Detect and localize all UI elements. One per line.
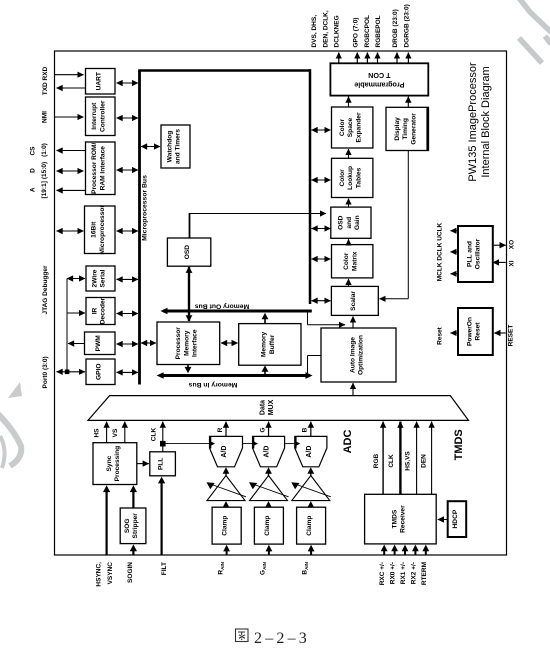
svg-text:PW135 ImageProcessor: PW135 ImageProcessor xyxy=(467,62,479,182)
wire OSD to OSD-and-Gain xyxy=(190,213,327,238)
wire RXD xyxy=(57,87,86,89)
svg-text:MCLK DCLK UCLK: MCLK DCLK UCLK xyxy=(437,222,444,281)
svg-text:TMDS: TMDS xyxy=(453,429,465,460)
svg-text:Processing: Processing xyxy=(114,446,121,482)
wire Clamp R to amplifier xyxy=(223,501,230,507)
pin label (15:0) xyxy=(41,162,48,179)
svg-text:Watchdog: Watchdog xyxy=(166,131,173,163)
wire peripheral to uP bus at y=313.5 xyxy=(117,313,139,315)
wire Processor Memory Interface to Memory Buffer xyxy=(221,342,238,344)
wire HS to Data MUX xyxy=(106,422,108,443)
svg-text:FILT: FILT xyxy=(161,562,168,575)
pin label HSYNC VSYNC xyxy=(96,562,115,587)
label RGB xyxy=(373,453,380,468)
pin label RX1 +/- xyxy=(400,562,407,584)
mux Data MUX xyxy=(88,396,469,421)
block OSD and Gain xyxy=(331,207,371,238)
pin label JTAG Debugger xyxy=(42,265,49,314)
svg-text:GPO (7:0): GPO (7:0) xyxy=(353,18,360,48)
bus Memory In Bus xyxy=(157,372,313,379)
amplifier B xyxy=(291,476,331,501)
wire TMDS RGB to Data MUX xyxy=(382,422,384,495)
wire peripheral to uP bus at y=231 xyxy=(117,230,139,232)
wire Reset output xyxy=(451,332,459,334)
pin label A xyxy=(29,187,36,192)
svg-text:RX0 +/-: RX0 +/- xyxy=(390,562,397,584)
pin label TXD RXD xyxy=(42,66,49,95)
svg-text:CLK: CLK xyxy=(151,428,158,442)
label HS xyxy=(94,428,101,438)
block PLL xyxy=(150,452,176,476)
wire analog input to Clamp at x=311.1 xyxy=(308,545,315,555)
svg-text:CLK: CLK xyxy=(388,454,395,468)
svg-text:PowerOn: PowerOn xyxy=(466,317,473,346)
adc A/D B xyxy=(295,436,327,466)
svg-text:16Bit: 16Bit xyxy=(91,221,98,238)
wire Memory In Bus to Memory Buffer xyxy=(262,365,269,374)
svg-text:Reset: Reset xyxy=(475,322,482,341)
svg-text:RXC +/-: RXC +/- xyxy=(379,562,386,585)
svg-text:HS: HS xyxy=(94,428,101,438)
wire A xyxy=(57,189,86,191)
wire XI xyxy=(493,261,506,263)
wire Processor Memory Interface to Memory In Bus xyxy=(185,365,192,374)
svg-text:(1:0): (1:0) xyxy=(41,143,48,157)
wire Clamp B to amplifier xyxy=(307,501,314,507)
svg-text:VSYNC: VSYNC xyxy=(107,562,114,585)
wire Scalar to Color Matrix xyxy=(348,279,350,287)
wire peripheral to uP bus at y=170 xyxy=(117,169,139,171)
svg-text:Color: Color xyxy=(339,169,346,187)
svg-text:OSD: OSD xyxy=(184,245,191,260)
label XO xyxy=(509,240,516,249)
svg-text:HDCP: HDCP xyxy=(452,509,459,528)
svg-text:Processor: Processor xyxy=(175,327,182,360)
amplifier G xyxy=(249,476,289,501)
svg-text:SOGIN: SOGIN xyxy=(127,562,134,583)
block Color Space Expander xyxy=(332,107,373,148)
junction Port0 rail corner xyxy=(65,370,70,375)
wire peripheral to uP bus at y=83 xyxy=(117,82,139,84)
label MCLK DCLK UCLK xyxy=(437,222,444,281)
svg-text:RAM Interface: RAM Interface xyxy=(99,146,106,191)
label R xyxy=(217,427,224,432)
svg-text:GPIO: GPIO xyxy=(96,364,103,381)
svg-text:Expander: Expander xyxy=(355,112,362,142)
wire SOG Stripper to Sync Processing xyxy=(130,485,137,508)
svg-text:Serial: Serial xyxy=(100,269,107,287)
svg-text:Gain: Gain xyxy=(354,215,361,230)
wire analog input to Clamp at x=226.6 xyxy=(223,545,230,555)
core box top edge xyxy=(138,69,311,72)
wire NMI to Interrupt Controller xyxy=(55,116,84,118)
svg-text:R: R xyxy=(217,427,224,432)
wire D xyxy=(57,170,84,172)
pin label D xyxy=(29,168,36,173)
core box right edge xyxy=(309,69,312,304)
svg-text:Scalar: Scalar xyxy=(350,291,357,311)
wire RESET input xyxy=(494,332,505,334)
label Microprocessor Bus xyxy=(142,175,149,241)
wire Clamp G to amplifier xyxy=(265,501,272,507)
pin label DGRGB (23:0) xyxy=(403,4,410,47)
svg-text:Display: Display xyxy=(394,117,401,141)
label Memory Out Bus xyxy=(195,303,250,310)
wire TMDS input 0 to receiver xyxy=(381,545,388,555)
watermark top right xyxy=(519,0,550,63)
svg-text:Optimization: Optimization xyxy=(358,335,365,375)
label Memory In Bus xyxy=(188,381,237,388)
label CLK xyxy=(388,454,395,468)
label XI xyxy=(509,260,516,266)
wire VS to Data MUX xyxy=(124,422,126,443)
wire peripheral rail xyxy=(66,279,68,372)
svg-text:Clamp: Clamp xyxy=(264,516,271,536)
svg-text:PLL: PLL xyxy=(158,458,165,470)
wire Data MUX to Auto Image Optimization xyxy=(352,383,354,396)
label TMDS section xyxy=(453,429,465,460)
svg-text:RTERM: RTERM xyxy=(421,562,428,585)
block PLL and Oscillator xyxy=(458,226,493,282)
wire Memory Out Bus to Memory Buffer xyxy=(262,313,269,324)
block PWM xyxy=(85,332,116,355)
svg-text:Clamp: Clamp xyxy=(222,516,229,536)
svg-text:PWM: PWM xyxy=(95,335,102,352)
wire amplifier R to A/D xyxy=(223,467,230,475)
block Color Lookup Tables xyxy=(332,158,373,197)
label ADC section xyxy=(342,430,354,454)
wire HSYNC VSYNC input xyxy=(103,485,110,555)
block Interrupt Controller xyxy=(86,97,116,136)
pin label RX0 +/- xyxy=(390,562,397,584)
bus Microprocessor Bus line xyxy=(138,71,141,385)
wire PLL CLK to Data MUX xyxy=(162,422,164,452)
svg-text:Memory In Bus: Memory In Bus xyxy=(188,381,237,388)
pin label DVS, DHS, xyxy=(311,15,318,48)
wire core box to Color Matrix xyxy=(312,258,331,260)
block HDCP xyxy=(448,501,467,537)
svg-text:Lookup: Lookup xyxy=(347,166,354,190)
svg-text:Color: Color xyxy=(339,118,346,136)
svg-text:2Wire: 2Wire xyxy=(91,269,98,287)
wire FILT input to PLL xyxy=(158,477,165,555)
title Internal Block Diagram xyxy=(480,66,492,177)
svg-text:A: A xyxy=(29,187,36,192)
svg-text:DCLKNEG: DCLKNEG xyxy=(334,15,341,47)
svg-text:and: and xyxy=(346,217,353,229)
svg-text:PLL and: PLL and xyxy=(466,241,473,267)
pin label RGBEPOL xyxy=(375,15,382,47)
label VS xyxy=(112,428,119,437)
wire Display Timing Generator to TCON xyxy=(407,97,409,108)
block Watchdog and Timers xyxy=(161,125,190,168)
label HS,VS xyxy=(404,451,411,471)
svg-text:Generator: Generator xyxy=(410,113,417,145)
wire core box to Color Space Expander xyxy=(312,129,331,131)
svg-text:TXD RXD: TXD RXD xyxy=(42,66,49,95)
wire amplifier B to A/D xyxy=(307,467,314,475)
pin label BAIN xyxy=(302,561,310,574)
caption figure glyph xyxy=(236,629,249,642)
svg-text:XO: XO xyxy=(509,240,516,249)
block PowerOn Reset xyxy=(458,308,493,355)
svg-text:Sync: Sync xyxy=(106,455,113,471)
svg-text:[19:1]: [19:1] xyxy=(41,181,48,198)
svg-text:T CON: T CON xyxy=(368,71,390,80)
block 16Bit Microprocessor xyxy=(85,205,116,255)
pin label SOGIN xyxy=(127,562,134,583)
watermark left edge xyxy=(0,382,22,468)
wire A/D B to Data MUX xyxy=(310,422,312,437)
block UART xyxy=(86,69,116,95)
block Processor Memory Interface xyxy=(157,322,220,365)
wire core box to Scalar xyxy=(312,300,331,302)
bus Memory Out Bus xyxy=(161,308,312,314)
svg-text:Timing: Timing xyxy=(402,118,409,140)
svg-text:RESET: RESET xyxy=(508,325,515,347)
svg-text:ADC: ADC xyxy=(342,430,354,454)
wire Port0 to GPIO xyxy=(57,371,86,373)
svg-text:A/D: A/D xyxy=(306,446,313,458)
wire TMDS input 3 to receiver xyxy=(412,545,419,555)
svg-text:Microprocessor Bus: Microprocessor Bus xyxy=(142,175,149,241)
wire Sync Processing to PLL xyxy=(137,463,149,465)
svg-text:Internal Block Diagram: Internal Block Diagram xyxy=(480,66,492,177)
svg-text:XI: XI xyxy=(509,260,516,266)
svg-text:D: D xyxy=(29,168,36,173)
block Programmable TCON xyxy=(330,63,428,95)
wire TMDS DEN to Data MUX xyxy=(431,422,433,495)
pin label FILT xyxy=(161,562,168,575)
svg-text:Space: Space xyxy=(347,117,354,137)
block Clamp G xyxy=(254,507,283,544)
label G xyxy=(259,427,266,432)
pin label RXC +/- xyxy=(379,562,386,585)
pin label DRGB (23:0) xyxy=(392,9,399,47)
wire core box to Color Lookup Tables xyxy=(312,179,331,181)
wire SOGIN input xyxy=(130,544,137,555)
block Clamp R xyxy=(212,507,241,544)
wire TCON output at x=397 xyxy=(396,53,398,64)
adc A/D G xyxy=(253,436,285,466)
caption text 2-2-3 xyxy=(254,630,310,647)
wire rail to PWM xyxy=(68,343,84,345)
svg-text:MUX: MUX xyxy=(268,399,275,415)
svg-text:RX2 +/-: RX2 +/- xyxy=(410,562,417,584)
wire A/D R to Data MUX xyxy=(225,422,227,437)
svg-text:Decoder: Decoder xyxy=(100,297,107,324)
svg-text:HS,VS: HS,VS xyxy=(404,451,411,471)
wire TMDS CLK to Data MUX xyxy=(399,422,401,495)
svg-text:and Timers: and Timers xyxy=(175,129,182,164)
pin label GPO (7:0) xyxy=(353,18,360,48)
svg-text:Buffer: Buffer xyxy=(269,334,276,354)
svg-text:Memory: Memory xyxy=(183,330,190,356)
wire TMDS input 1 to receiver xyxy=(391,545,398,555)
wire TMDS input 4 to receiver xyxy=(422,545,429,555)
wire peripheral to uP bus at y=372.4 xyxy=(117,371,139,373)
wire Color Lookup Tables to Color Space Expander xyxy=(348,149,350,158)
wire peripheral to uP bus at y=118 xyxy=(117,117,139,119)
wire Color Space Expander to TCON xyxy=(348,97,350,107)
svg-text:Interface: Interface xyxy=(192,329,199,357)
wire amplifier G to A/D xyxy=(265,467,272,475)
block Scalar xyxy=(331,286,378,315)
title PW135 ImageProcessor xyxy=(467,62,479,182)
svg-text:IR: IR xyxy=(91,307,98,314)
svg-text:JTAG Debugger: JTAG Debugger xyxy=(42,265,49,314)
svg-text:Auto Image: Auto Image xyxy=(349,337,356,373)
wire CLK distribution to ADCs xyxy=(163,443,295,445)
svg-text:Reset: Reset xyxy=(437,326,444,345)
block Sync Processing xyxy=(93,443,137,485)
svg-text:HSYNC,: HSYNC, xyxy=(96,562,103,587)
pin label RX2 +/- xyxy=(410,562,417,584)
svg-text:DGRGB (23:0): DGRGB (23:0) xyxy=(403,4,410,47)
svg-text:B: B xyxy=(302,427,309,432)
wire OSD to Processor Memory Interface xyxy=(186,267,193,322)
label RESET xyxy=(508,325,515,347)
svg-text:CS: CS xyxy=(29,146,36,156)
svg-text:VS: VS xyxy=(112,428,119,437)
pin label [19:1] xyxy=(41,181,48,198)
pin label RGBCPOL xyxy=(364,15,371,48)
label B xyxy=(302,427,309,432)
wire peripheral to uP bus at y=279.4 xyxy=(117,278,139,280)
block Color Matrix xyxy=(332,245,373,278)
wire clock output at y=230.8 xyxy=(451,230,459,232)
svg-text:Processor ROM/: Processor ROM/ xyxy=(91,142,98,193)
block OSD xyxy=(167,238,210,266)
wire rail to IR Decoder xyxy=(67,312,85,314)
block Clamp B xyxy=(297,507,326,544)
block IR Decoder xyxy=(86,297,115,324)
svg-text:RGBEPOL: RGBEPOL xyxy=(375,15,382,47)
block TMDS Receiver xyxy=(365,494,437,544)
amplifier R xyxy=(207,476,247,501)
block Processor ROM/RAM Interface xyxy=(86,142,116,195)
svg-text:Controller: Controller xyxy=(99,100,106,132)
pin label NMI xyxy=(42,111,49,123)
svg-text:Programmable: Programmable xyxy=(354,80,404,89)
svg-text:UART: UART xyxy=(95,72,102,90)
label CLK at PLL xyxy=(151,428,158,442)
svg-text:SOG: SOG xyxy=(124,518,131,533)
svg-text:Memory: Memory xyxy=(261,331,268,357)
block SOG Stripper xyxy=(120,508,146,544)
svg-text:DVS, DHS,: DVS, DHS, xyxy=(311,15,318,48)
wire TMDS input 2 to receiver xyxy=(402,545,409,555)
wire Watchdog to uP bus xyxy=(141,146,160,148)
wire TCON output at x=408.4 xyxy=(407,53,409,64)
wire OSD-and-Gain to Color Lookup Tables xyxy=(348,199,350,208)
svg-text:TMDS: TMDS xyxy=(391,509,398,528)
svg-text:DRGB (23:0): DRGB (23:0) xyxy=(392,9,399,47)
svg-text:2–2–3: 2–2–3 xyxy=(254,630,310,647)
svg-text:RGB: RGB xyxy=(373,453,380,468)
outer border frame xyxy=(55,51,507,555)
label Reset xyxy=(437,326,444,345)
wire TCON output at x=357.3 xyxy=(356,53,358,64)
block GPIO xyxy=(86,359,115,385)
pin label Port0 (3:0) xyxy=(42,356,49,388)
wire clock output at y=251.9 xyxy=(451,251,459,253)
pin label DCLKNEG xyxy=(334,15,341,47)
label DEN xyxy=(421,454,428,468)
wire Display Timing Generator to Scalar xyxy=(380,151,409,299)
wire Auto Image Optimization to Scalar xyxy=(352,316,354,328)
wire Memory In Bus to Auto Image Optimization xyxy=(308,356,321,375)
svg-text:DEN, DCLK,: DEN, DCLK, xyxy=(322,10,329,47)
svg-text:Oscillator: Oscillator xyxy=(475,238,482,269)
wire Color Matrix to OSD-and-Gain xyxy=(348,239,350,244)
wire core box to OSD and Gain xyxy=(312,228,331,230)
svg-text:A/D: A/D xyxy=(264,446,271,458)
block 2Wire Serial xyxy=(86,266,115,291)
svg-text:OSD: OSD xyxy=(338,215,345,230)
wire HDCP to TMDS Receiver xyxy=(438,519,448,521)
pin label (1:0) xyxy=(41,143,48,157)
block Auto Image Optimization xyxy=(321,328,396,382)
svg-text:Port0 (3:0): Port0 (3:0) xyxy=(42,356,49,388)
svg-text:Clamp: Clamp xyxy=(306,516,313,536)
adc A/D R xyxy=(210,436,243,466)
wire TCON output at x=338.8 xyxy=(338,53,340,64)
pin label DEN, DCLK, xyxy=(322,10,329,47)
wire CS xyxy=(57,150,86,152)
junction CLK branch xyxy=(160,441,166,447)
svg-text:A/D: A/D xyxy=(221,446,228,458)
svg-text:G: G xyxy=(259,427,266,432)
svg-text:NMI: NMI xyxy=(42,111,49,123)
wire uP bus to Processor Memory Interface xyxy=(141,342,156,344)
svg-text:Interrupt: Interrupt xyxy=(91,102,98,130)
block Display Timing Generator xyxy=(386,107,429,150)
svg-text:Data: Data xyxy=(260,400,267,415)
wire peripheral to uP bus at y=344 xyxy=(117,343,139,345)
block Memory Buffer xyxy=(239,324,301,366)
pin label RTERM xyxy=(421,562,428,585)
wire TXD xyxy=(55,74,84,76)
svg-text:Receiver: Receiver xyxy=(400,505,407,533)
svg-text:Color: Color xyxy=(343,252,350,270)
wire rail to 2Wire Serial xyxy=(67,278,85,280)
svg-text:RGBCPOL: RGBCPOL xyxy=(364,15,371,48)
svg-text:RX1 +/-: RX1 +/- xyxy=(400,562,407,584)
wire analog input to Clamp at x=268.9 xyxy=(266,545,273,555)
svg-text:Matrix: Matrix xyxy=(351,251,358,271)
wire TCON output at x=367.4 xyxy=(366,53,368,64)
svg-text:Microprocessor: Microprocessor xyxy=(99,205,106,255)
svg-text:DEN: DEN xyxy=(421,454,428,468)
svg-text:(15:0): (15:0) xyxy=(41,162,48,179)
svg-text:Memory Out Bus: Memory Out Bus xyxy=(195,303,250,310)
wire JTAG to 16Bit Microprocessor xyxy=(57,230,84,232)
pin label GAIN xyxy=(260,561,268,575)
wire XO xyxy=(493,244,506,246)
svg-text:Stripper: Stripper xyxy=(132,513,139,539)
svg-text:Tables: Tables xyxy=(355,167,362,188)
wire TCON output at x=377.5 xyxy=(377,53,379,64)
wire Memory Out Bus to Scalar feed xyxy=(308,313,346,325)
wire A/D G to Data MUX xyxy=(268,422,270,437)
wire clock output at y=273.8 xyxy=(451,273,459,275)
pin label RAIN xyxy=(218,561,226,574)
pin label CS xyxy=(29,146,36,156)
wire TMDS HS,VS to Data MUX xyxy=(416,422,418,495)
